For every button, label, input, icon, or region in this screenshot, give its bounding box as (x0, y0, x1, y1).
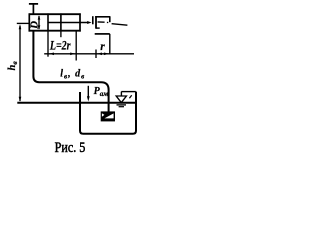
diameter D dimension arrow (38, 16, 40, 29)
flow arrow on axis (87, 21, 91, 24)
svg-text:Рис. 5: Рис. 5 (55, 139, 86, 155)
fitting bottom line (95, 33, 110, 35)
pipe section divider 2 (60, 13, 62, 31)
tank walls and bottom (rounded corners) (80, 92, 136, 134)
fitting right wall lower / r extension (109, 34, 111, 54)
svg-text:r: r (100, 41, 105, 53)
svg-text:Pам: Pам (94, 86, 109, 98)
r inside arrow pointing right (104, 53, 109, 56)
pipe section: top wall (29, 13, 81, 15)
pipe section: right end cap (79, 13, 81, 31)
extension line below divider 1 (47, 32, 49, 57)
atmospheric pressure arrow (87, 86, 89, 97)
dimension line under pipe (L=2r and r) (44, 53, 134, 55)
foot valve box (solid) (101, 111, 115, 121)
h_b dimension line (19, 26, 21, 101)
extension line below divider 2 (60, 32, 62, 38)
L=2r left arrow (49, 53, 54, 56)
foot valve white diagonal wedge (104, 113, 113, 118)
axis extension stub left of entrance (17, 22, 30, 24)
fitting bottom short arm (96, 27, 100, 29)
water level symbol: right tick (129, 95, 131, 98)
pipe section: bottom wall (29, 30, 81, 32)
nozzle end bar (95, 16, 97, 29)
water level symbol: hatch 1 (117, 104, 127, 106)
r inside arrow pointing left (97, 53, 102, 56)
water level symbol: top bar (121, 91, 136, 93)
water level symbol: inverted triangle (116, 96, 126, 103)
water level symbol: stem (120, 92, 122, 97)
nozzle flange tick (92, 16, 94, 24)
svg-text:L=2r: L=2r (49, 39, 71, 52)
svg-text:hв: hв (7, 61, 19, 71)
h_b bottom arrow (down) (19, 97, 22, 102)
extension line below pipe end (75, 32, 77, 61)
foot valve white notch (102, 113, 105, 116)
fitting top arm (95, 16, 110, 18)
svg-text:lв, dв: lв, dв (60, 68, 85, 80)
stub fitting T on top of pipe (29, 4, 38, 14)
h_b top arrow (up) (19, 24, 22, 29)
pipe section divider 1 (47, 13, 49, 31)
pipe axis line (48, 22, 88, 24)
pipe section: left end cap (28, 13, 30, 31)
water surface line (17, 102, 136, 104)
fitting right wall upper stub (109, 17, 111, 22)
L=2r right arrow (70, 53, 75, 56)
water level symbol: hatch 2 (119, 106, 124, 108)
extension line below nozzle bar (95, 50, 97, 59)
main suction pipe run (33, 32, 108, 112)
jet dash-dot axis (98, 21, 109, 24)
